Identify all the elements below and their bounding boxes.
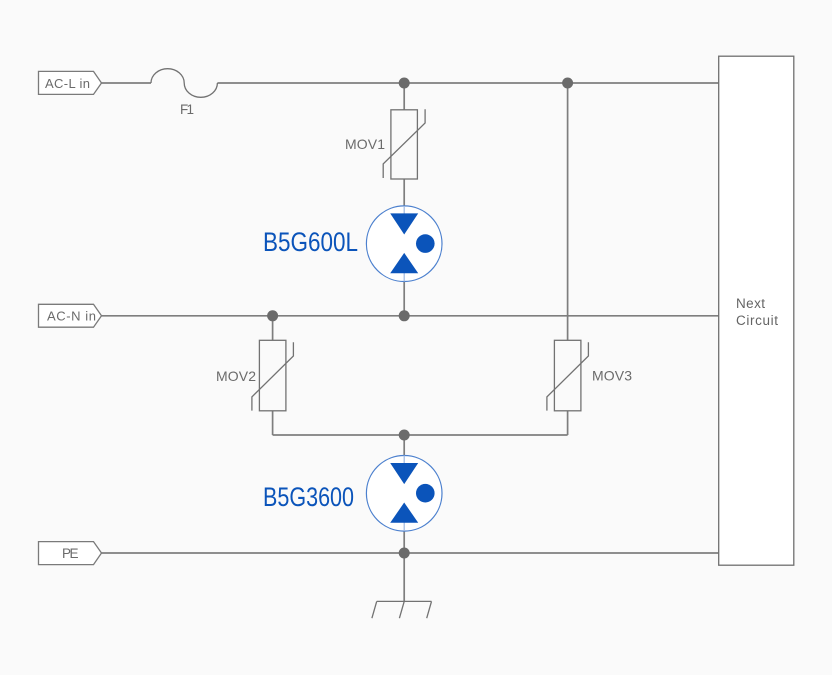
net label PE <box>39 542 102 565</box>
gas discharge tube U1 B5G600L <box>366 206 442 282</box>
node junction AC-N / GDT U1 <box>399 310 410 321</box>
wire MOV2 bottom down to connector <box>272 411 274 435</box>
wire from GDT U1 bottom to AC-N junction <box>403 281 405 315</box>
svg-text:MOV1: MOV1 <box>345 136 385 152</box>
wire connector between MOV2 and MOV3 bottoms <box>273 434 568 436</box>
wire from AC-L junction down to MOV1 top <box>403 83 405 110</box>
node junction connector / GDT U2 <box>399 430 410 441</box>
fuse F1 <box>151 69 217 117</box>
wire MOV3 bottom down to connector <box>567 411 569 435</box>
node junction AC-L / MOV1 branch <box>399 78 410 89</box>
node junction AC-L / MOV3 branch <box>562 78 573 89</box>
varistor MOV2 <box>216 340 293 411</box>
gas discharge tube U2 B5G3600 <box>366 456 442 532</box>
wire PE junction down to ground <box>403 553 405 601</box>
svg-text:MOV2: MOV2 <box>216 368 256 384</box>
svg-text:MOV3: MOV3 <box>592 367 632 383</box>
wire from MOV1 bottom to GDT U1 top <box>403 179 405 206</box>
svg-text:AC-L in: AC-L in <box>45 76 90 91</box>
varistor MOV1 <box>345 109 425 179</box>
svg-text:B5G3600: B5G3600 <box>263 482 354 512</box>
svg-text:PE: PE <box>62 546 79 561</box>
net label AC-L in <box>39 71 102 94</box>
wire GDT U2 bottom down to PE junction <box>403 531 405 553</box>
svg-text:Circuit: Circuit <box>736 313 778 328</box>
wire AC-L line from F1 to Next Circuit box <box>217 82 718 84</box>
svg-text:Next: Next <box>736 296 765 311</box>
node junction AC-N / MOV2 branch <box>267 310 278 321</box>
wire AC-N junction down to MOV2 top <box>272 316 274 341</box>
wire AC-N line <box>102 315 719 317</box>
svg-text:B5G600L: B5G600L <box>263 227 358 257</box>
wire AC-L line from tag to F1 <box>102 82 152 84</box>
svg-text:F1: F1 <box>180 102 194 117</box>
ground symbol <box>372 601 432 618</box>
wire branch AC-L to MOV3, crossing AC-N without junction <box>567 83 569 340</box>
net label AC-N in <box>39 304 102 327</box>
block Next Circuit <box>719 56 794 565</box>
wire connector junction down to GDT U2 top <box>403 435 405 456</box>
svg-text:AC-N in: AC-N in <box>47 309 96 324</box>
node junction PE / ground <box>399 548 410 559</box>
wire PE line <box>102 552 719 554</box>
varistor MOV3 <box>547 340 632 411</box>
